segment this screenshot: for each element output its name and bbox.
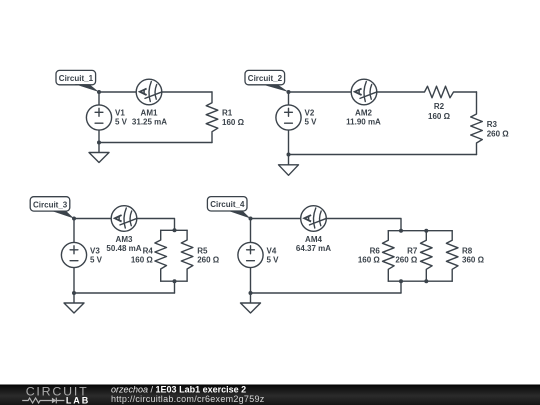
svg-text:5 V: 5 V (90, 256, 103, 265)
wire ammeter to branch (326, 219, 401, 231)
svg-text:Circuit_4: Circuit_4 (210, 200, 245, 209)
resistor R1 (206, 92, 244, 143)
node bus top feed junction (399, 229, 403, 233)
ground circuit 3 (64, 293, 84, 313)
wire bottom rail (251, 292, 402, 294)
wire node to ammeter (74, 218, 111, 220)
wire top rail node to ammeter (99, 91, 136, 93)
ammeter AM4 (296, 206, 331, 253)
ground circuit 1 (89, 143, 109, 163)
svg-text:5 V: 5 V (305, 118, 318, 127)
node bus bottom feed junction (399, 279, 403, 283)
svg-text:Circuit_3: Circuit_3 (33, 200, 68, 209)
resistor R5 (181, 230, 219, 281)
svg-text:160 Ω: 160 Ω (131, 256, 154, 265)
node bottom junction (287, 153, 291, 157)
svg-text:160 Ω: 160 Ω (428, 112, 451, 121)
svg-text:Circuit_2: Circuit_2 (248, 74, 283, 83)
voltage source V3 (61, 242, 102, 267)
svg-text:AM2: AM2 (355, 109, 372, 118)
svg-text:260 Ω: 260 Ω (487, 130, 510, 139)
svg-text:360 Ω: 360 Ω (462, 256, 485, 265)
node label Circuit_2 flag (245, 70, 289, 92)
node bottom junction (72, 291, 76, 295)
voltage source V1 (86, 105, 127, 130)
node top junction (97, 90, 101, 94)
svg-text:R6: R6 (370, 246, 381, 255)
resistor R7 (395, 231, 432, 282)
node bottom junction (249, 291, 253, 295)
svg-text:160 Ω: 160 Ω (222, 118, 245, 127)
wire V2 bottom stem (288, 130, 290, 154)
svg-text:LAB: LAB (66, 396, 90, 405)
wire bottom bus (388, 280, 452, 282)
resistor R8 (446, 231, 484, 282)
resistor R3 (471, 92, 510, 155)
svg-text:R8: R8 (462, 246, 473, 255)
svg-text:V4: V4 (267, 247, 277, 256)
logo resistor zigzag (22, 398, 52, 403)
node top junction (249, 217, 253, 221)
svg-text:V1: V1 (115, 109, 125, 118)
wire bottom rail (99, 142, 212, 144)
voltage source V2 (276, 105, 317, 130)
wire ammeter to resistor corner (162, 91, 212, 93)
svg-text:R7: R7 (407, 246, 418, 255)
svg-text:260 Ω: 260 Ω (197, 256, 220, 265)
resistor R4 (131, 230, 167, 281)
wire bottom bus (161, 280, 187, 282)
svg-text:160 Ω: 160 Ω (358, 256, 381, 265)
wire V3 top stem (73, 219, 75, 243)
svg-text:R3: R3 (487, 120, 498, 129)
svg-text:V3: V3 (90, 247, 100, 256)
voltage source V4 (238, 242, 279, 267)
svg-text:5 V: 5 V (267, 256, 280, 265)
svg-text:Circuit_1: Circuit_1 (59, 74, 94, 83)
node label Circuit_4 flag (207, 197, 250, 219)
svg-text:50.48 mA: 50.48 mA (106, 244, 141, 253)
ammeter AM3 (106, 206, 141, 253)
node bus top R7 junction (424, 229, 428, 233)
svg-text:11.90 mA: 11.90 mA (346, 118, 381, 127)
wire bus to bottom rail (174, 281, 176, 293)
logo diode (52, 398, 56, 404)
wire bus to bottom rail (400, 281, 402, 293)
svg-text:V2: V2 (305, 109, 315, 118)
node bus bottom R7 junction (424, 279, 428, 283)
ground circuit 2 (279, 155, 299, 176)
resistor R2 (377, 86, 477, 121)
ground circuit 4 (241, 293, 261, 313)
svg-text:64.37 mA: 64.37 mA (296, 244, 331, 253)
wire node to ammeter (251, 218, 301, 220)
node bus bottom junction (173, 279, 177, 283)
wire node to ammeter (289, 91, 352, 93)
svg-text:http://circuitlab.com/cr6exem2: http://circuitlab.com/cr6exem2g759z (111, 394, 265, 404)
resistor R6 (358, 231, 394, 282)
wire V2 top stem (288, 92, 290, 105)
svg-text:R1: R1 (222, 109, 233, 118)
svg-text:AM1: AM1 (141, 109, 158, 118)
node bus top junction (173, 228, 177, 232)
wire V1 bottom stem (98, 130, 100, 142)
node bottom junction (97, 141, 101, 145)
svg-text:260 Ω: 260 Ω (395, 256, 418, 265)
wire top bus (161, 229, 187, 231)
node top junction (287, 90, 291, 94)
op wire V1 top stem (98, 92, 100, 105)
node top junction (72, 217, 76, 221)
ammeter AM2 (346, 79, 381, 126)
node label Circuit_1 flag (56, 70, 99, 92)
svg-text:R4: R4 (143, 246, 154, 255)
ammeter AM1 (132, 79, 167, 126)
wire top bus (388, 230, 452, 232)
svg-text:AM3: AM3 (116, 235, 133, 244)
wire bottom rail (289, 154, 477, 156)
svg-text:AM4: AM4 (305, 235, 322, 244)
wire bottom rail (74, 292, 175, 294)
wire ammeter to branch (137, 219, 175, 231)
svg-text:R2: R2 (434, 102, 445, 111)
wire V4 bottom stem (250, 268, 252, 293)
svg-text:5 V: 5 V (115, 118, 128, 127)
svg-text:31.25 mA: 31.25 mA (132, 118, 167, 127)
wire V3 bottom stem (73, 268, 75, 293)
node label Circuit_3 flag (30, 197, 74, 219)
svg-text:R5: R5 (197, 246, 208, 255)
wire V4 top stem (250, 219, 252, 243)
